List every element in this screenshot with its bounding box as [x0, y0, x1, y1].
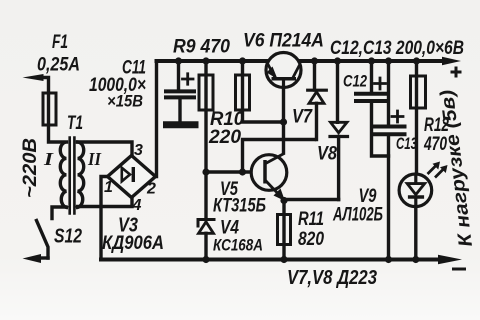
- svg-text:КТ315Б: КТ315Б: [213, 196, 266, 217]
- svg-text:2: 2: [146, 181, 156, 198]
- svg-text:820: 820: [298, 229, 324, 250]
- svg-text:1: 1: [104, 179, 113, 196]
- svg-text:С13: С13: [396, 134, 417, 153]
- svg-text:Т1: Т1: [67, 113, 83, 134]
- svg-text:R9 470: R9 470: [173, 37, 230, 58]
- svg-text:0,25А: 0,25А: [37, 54, 80, 76]
- svg-text:R11: R11: [298, 209, 324, 230]
- svg-text:II: II: [87, 149, 102, 169]
- svg-text:КД906А: КД906А: [102, 233, 164, 254]
- svg-text:S12: S12: [54, 225, 82, 248]
- svg-text:С12: С12: [343, 72, 367, 91]
- svg-text:~220В: ~220В: [20, 138, 41, 198]
- svg-text:3: 3: [134, 142, 143, 159]
- svg-text:С12,С13 200,0×6В: С12,С13 200,0×6В: [330, 37, 464, 59]
- svg-text:АЛ102Б: АЛ102Б: [332, 205, 383, 226]
- svg-text:I: I: [43, 149, 55, 169]
- svg-text:V7: V7: [292, 107, 313, 128]
- svg-text:×15В: ×15В: [107, 92, 143, 111]
- svg-text:V8: V8: [317, 144, 337, 165]
- svg-text:V6 П214А: V6 П214А: [243, 31, 324, 52]
- svg-text:F1: F1: [52, 32, 68, 53]
- svg-text:4: 4: [132, 197, 142, 214]
- svg-text:V7,V8 Д223: V7,V8 Д223: [287, 267, 377, 289]
- svg-text:220: 220: [208, 127, 241, 148]
- svg-text:КС168А: КС168А: [213, 236, 263, 255]
